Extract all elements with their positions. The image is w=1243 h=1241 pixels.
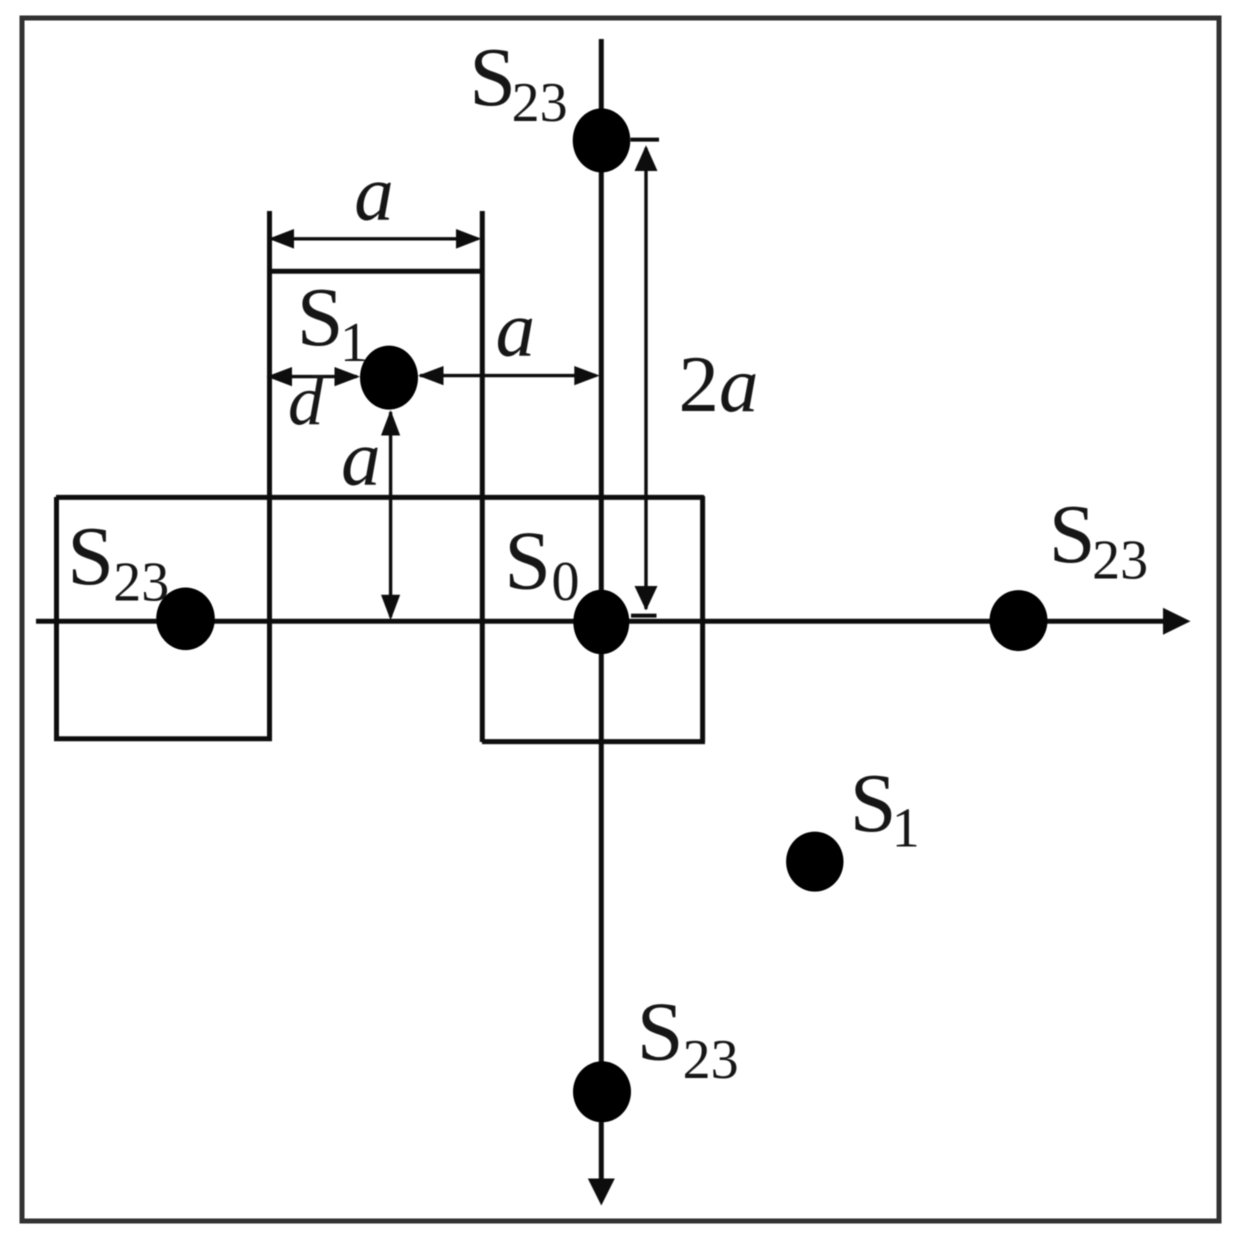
svg-text:a: a xyxy=(341,416,381,503)
svg-text:S: S xyxy=(297,271,344,364)
svg-text:23: 23 xyxy=(1092,529,1148,591)
svg-text:d: d xyxy=(288,363,324,441)
svg-text:S: S xyxy=(504,515,551,608)
svg-text:a: a xyxy=(496,287,535,374)
svg-text:S: S xyxy=(1049,488,1096,581)
svg-text:S: S xyxy=(67,510,114,603)
svg-text:S: S xyxy=(637,986,684,1079)
svg-text:1: 1 xyxy=(892,798,920,860)
svg-text:S: S xyxy=(469,31,516,124)
svg-text:a: a xyxy=(354,151,394,238)
svg-text:a: a xyxy=(719,342,759,429)
svg-text:S: S xyxy=(850,757,897,850)
svg-text:23: 23 xyxy=(512,72,568,134)
svg-text:23: 23 xyxy=(683,1029,739,1091)
svg-text:2: 2 xyxy=(679,339,720,429)
svg-text:1: 1 xyxy=(340,312,368,374)
svg-text:23: 23 xyxy=(113,552,169,614)
svg-text:0: 0 xyxy=(552,551,580,613)
